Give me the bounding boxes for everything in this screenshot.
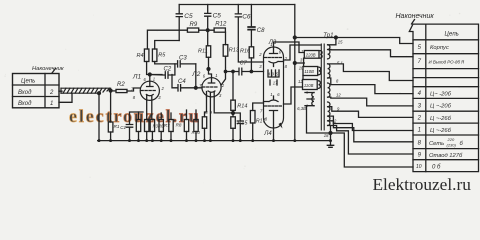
svg-text:1: 1 [418, 128, 421, 134]
resistor R15 [231, 117, 236, 129]
wire envelope bottom to bus [273, 128, 275, 141]
svg-text:R12: R12 [215, 21, 227, 27]
wire V4 cathode R17 [253, 103, 264, 111]
svg-text:12: 12 [336, 92, 341, 97]
transformer T1 heater winding [312, 93, 314, 106]
node R14 R15 junction [232, 112, 235, 115]
svg-text:15: 15 [338, 39, 343, 44]
wire C3 node down to grid line [195, 64, 197, 88]
capacitor C2 [150, 72, 175, 78]
wire primary centre tap [295, 62, 305, 64]
svg-text:R1: R1 [114, 124, 120, 129]
resistor R8 [184, 120, 188, 132]
wire R5 bottom to C3 line [155, 62, 177, 64]
svg-text:R10: R10 [192, 130, 201, 135]
wire tap to pin4 [328, 78, 413, 94]
wire tap to blank row [328, 64, 413, 81]
wire cable to R2 [111, 90, 116, 92]
wire R4 bottom to anode node [147, 62, 162, 75]
heater tap arrows [305, 93, 314, 106]
tube V3 anode [270, 47, 278, 54]
svg-text:Вход: Вход [18, 101, 32, 107]
svg-text:R4: R4 [137, 53, 144, 59]
svg-text:18: 18 [324, 133, 329, 138]
svg-text:1: 1 [153, 76, 155, 81]
svg-text:Л4: Л4 [263, 131, 272, 137]
node cable end [109, 89, 112, 92]
svg-text:С2: С2 [164, 67, 172, 73]
primary winding bumps 110Va [319, 67, 321, 75]
svg-text:Наконечник: Наконечник [396, 13, 435, 20]
svg-text:2: 2 [49, 90, 54, 96]
wire R3 R6 to bus [147, 132, 153, 141]
wire R15 to bus [232, 128, 234, 140]
svg-text:С3: С3 [179, 55, 187, 61]
transformer T1 secondary winding group4 [328, 102, 330, 126]
tube V4 cathode [264, 96, 279, 102]
capacitor C5a [176, 5, 182, 41]
svg-text:(230): (230) [447, 143, 457, 148]
resistor R13 [223, 45, 228, 57]
wire input 1 to shield [59, 93, 72, 102]
svg-text:10: 10 [416, 164, 422, 170]
tube V4 anode [270, 111, 278, 129]
resistor R5 [152, 49, 157, 62]
wire R2 to V1 grid [127, 88, 140, 91]
resistor R2a (extra) [136, 120, 140, 132]
wire C2 up to C3 line [174, 64, 176, 75]
resistor R4 [144, 49, 149, 62]
wire riser to R14 [232, 72, 234, 101]
svg-text:Наконечник: Наконечник [32, 66, 64, 72]
wire shield to ground bus [98, 93, 100, 140]
wire R16 bottom to C7 line [250, 58, 252, 72]
capacitor C1 [126, 112, 143, 141]
tube V4 grid [265, 105, 282, 107]
wire V1 cathode to R3 R6 [147, 100, 152, 119]
ground symbol [327, 141, 333, 148]
resistor R3 [145, 120, 149, 132]
svg-text:Тр1: Тр1 [323, 33, 333, 39]
node pin18 [329, 132, 332, 135]
wire input 2 [59, 90, 62, 92]
svg-text:С5: С5 [184, 13, 193, 20]
pin leader tick right table [412, 20, 415, 25]
resistor R10b under V2 [202, 117, 206, 129]
capacitor C8 polarized [250, 5, 252, 27]
transformer T1 core [321, 44, 324, 130]
transformer T1 primary section 220V [304, 51, 319, 59]
resistor R7 [159, 120, 163, 132]
tube V2 grid [203, 86, 217, 88]
top supply bus [179, 4, 295, 6]
svg-text:Ц ~-26б: Ц ~-26б [430, 116, 452, 122]
wire tap to pin2 [328, 107, 413, 118]
svg-text:Ц~ -20б: Ц~ -20б [430, 91, 452, 97]
primary winding bumps 110Vb [319, 81, 321, 89]
tube V1 (Л1) envelope [140, 81, 159, 100]
node V1 anode [148, 73, 151, 76]
node R16 bottom [250, 70, 252, 72]
tube V1 anode [147, 81, 153, 86]
transformer T1 primary section 110V b [303, 80, 318, 90]
svg-text:220В: 220В [305, 53, 316, 58]
connector table XS2 (right) [409, 24, 478, 172]
tube V3 cathode [269, 62, 284, 67]
wire core bottom ground [330, 133, 332, 141]
wire tap to pin1 [328, 116, 413, 130]
svg-text:Elektrouzel.ru: Elektrouzel.ru [373, 175, 472, 194]
capacitor C9 [233, 113, 243, 141]
svg-text:С6: С6 [242, 14, 251, 21]
svg-text:R9: R9 [190, 22, 198, 28]
transformer T1 primary link [302, 58, 305, 79]
wire R13 feed [225, 32, 227, 44]
transformer T1 secondary winding group2 [328, 64, 330, 78]
wire R9 to R12 [199, 29, 214, 31]
svg-text:1: 1 [270, 92, 272, 97]
resistor R10 [194, 120, 198, 132]
svg-text:R15: R15 [237, 120, 248, 126]
svg-text:220: 220 [447, 137, 455, 142]
heater pins box V3V4 [268, 70, 279, 85]
wire R4 feed from R9 line [147, 30, 187, 49]
svg-text:R2: R2 [117, 82, 125, 88]
resistor R14 [231, 100, 236, 110]
svg-text:1: 1 [50, 101, 53, 107]
watermark electrouzel.ru [69, 106, 201, 126]
svg-text:17: 17 [273, 80, 278, 85]
tube V3 grid [265, 57, 282, 59]
svg-text:6,3В: 6,3В [297, 106, 306, 111]
svg-text:110В: 110В [304, 83, 314, 88]
supply dropper vertical [294, 5, 296, 141]
shielded cable [61, 88, 111, 93]
wire R1 to bus [110, 132, 112, 141]
pin leader tick left table [52, 69, 56, 74]
node V2 anode [207, 68, 210, 71]
svg-text:110В: 110В [304, 69, 314, 74]
tube V1 cathode [146, 95, 153, 101]
svg-text:1: 1 [301, 49, 303, 54]
svg-text:R13: R13 [229, 48, 240, 54]
node R13 C7 tap [224, 70, 226, 72]
tube V1 grid [141, 90, 155, 92]
svg-text:10: 10 [299, 66, 304, 71]
wire cable end down to R1 [110, 91, 112, 122]
svg-text:R5: R5 [158, 53, 166, 59]
transformer T1 secondary winding group3 [328, 83, 330, 97]
resistor R8a [169, 120, 173, 132]
wire V4 anode to primary bottom [284, 87, 303, 104]
svg-text:0 б: 0 б [432, 164, 441, 170]
svg-text:Сеть: Сеть [429, 141, 444, 147]
svg-text:С5: С5 [213, 13, 222, 20]
node supply top wireA [293, 36, 296, 39]
capacitor C3 [178, 61, 196, 67]
svg-text:Ц ~-26б: Ц ~-26б [430, 128, 452, 134]
svg-text:Отвод 127б: Отвод 127б [429, 153, 463, 159]
bottom row labels [114, 122, 201, 135]
svg-text:Цепь: Цепь [445, 32, 459, 38]
wire R13 to V2 anode 2 [221, 56, 225, 85]
resistor R17 [250, 111, 255, 124]
svg-text:R14: R14 [237, 103, 247, 109]
svg-text:R16: R16 [240, 49, 251, 55]
transformer T1 secondary winding group1 [328, 45, 330, 59]
resistor R1 [108, 122, 113, 132]
resistor R16 [249, 47, 254, 58]
bus junction dots [98, 139, 332, 142]
resistor R11 [206, 46, 210, 58]
wire tap to pin8 [328, 121, 413, 142]
svg-text:Корпус: Корпус [430, 45, 449, 51]
tube V2 (Л2) envelope [202, 78, 221, 97]
resistor R6 [150, 120, 154, 132]
primary winding bumps 220V [320, 51, 322, 59]
wire heater down to pin18 [307, 106, 331, 133]
svg-text:1: 1 [270, 42, 272, 47]
wire tap to pin3 [328, 97, 413, 106]
capacitor C6 [235, 5, 263, 63]
wire A to pin5 [295, 38, 413, 44]
svg-text:Вход: Вход [18, 90, 32, 96]
tube V2 cathode [207, 91, 215, 97]
resistor R12 [214, 28, 225, 32]
wire B to pin7 [328, 50, 413, 57]
tube V2 anode [208, 78, 214, 83]
transformer T1 primary section 110V a [303, 67, 318, 76]
svg-text:С4: С4 [178, 79, 186, 85]
svg-text:R8: R8 [176, 122, 182, 127]
svg-text:Л1: Л1 [132, 74, 141, 81]
svg-text:R11: R11 [198, 49, 208, 55]
wire V2 cathode leads down [205, 97, 234, 141]
wire aux top nested [284, 45, 322, 60]
connector table XS1 (left) [13, 74, 60, 108]
resistor R2 [116, 89, 127, 92]
wire transformer bottom to pin10 [331, 126, 414, 168]
node C5b R9 R12 [206, 29, 209, 32]
svg-text:12: 12 [298, 79, 303, 84]
node shield ground [98, 92, 101, 95]
svg-text:5 1: 5 1 [337, 60, 343, 65]
svg-text:1: 1 [215, 73, 217, 78]
wire R17 to bus [252, 123, 254, 141]
V4 cathode arrow [279, 123, 283, 129]
svg-text:С1: С1 [120, 125, 126, 130]
svg-text:2: 2 [417, 116, 422, 122]
wire R5 feed from C5a [155, 41, 180, 50]
node R14 riser [232, 70, 234, 72]
svg-text:R7: R7 [164, 123, 170, 128]
wire tap to pin9 [328, 126, 413, 155]
svg-text:Цепь: Цепь [21, 79, 35, 85]
svg-text:С8: С8 [257, 28, 265, 34]
capacitor C4 [172, 75, 202, 92]
wire R11 feed [207, 30, 210, 46]
wire V3 anode to primary top [274, 42, 305, 53]
wire secondary tap1 to wireA [328, 38, 336, 45]
resistor R9 [187, 28, 198, 32]
node C4 out [194, 86, 197, 89]
capacitor C7 [226, 68, 264, 75]
svg-text:R3R6: R3R6 [153, 123, 164, 128]
capacitor C5b [205, 5, 211, 31]
svg-text:С7: С7 [240, 61, 248, 67]
winding value labels [297, 39, 343, 138]
output tubes V3 V4 (Л3 Л4) common envelope [264, 47, 284, 128]
wire V1 anode up [149, 75, 151, 82]
svg-text:И Выход РО-дб Я: И Выход РО-дб Я [429, 59, 465, 64]
wire V2 anode up to R11 [209, 57, 212, 77]
ground bus [98, 140, 331, 142]
svg-text:Л2: Л2 [191, 71, 200, 78]
svg-text:Ц ~-20б: Ц ~-20б [430, 104, 452, 110]
